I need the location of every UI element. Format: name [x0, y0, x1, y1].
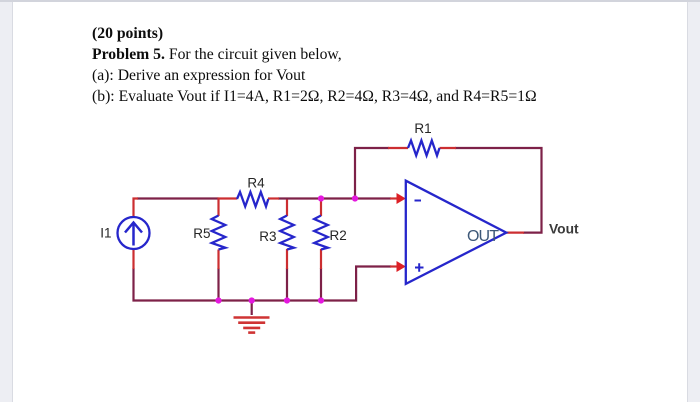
- svg-text:Vout: Vout: [549, 222, 579, 237]
- svg-text:OUT: OUT: [467, 228, 499, 245]
- svg-text:R2: R2: [330, 228, 347, 243]
- svg-text:R1: R1: [414, 121, 431, 136]
- svg-text:R3: R3: [259, 229, 276, 244]
- svg-text:R5: R5: [193, 226, 210, 241]
- svg-text:I1: I1: [100, 226, 111, 241]
- svg-text:R4: R4: [247, 176, 265, 191]
